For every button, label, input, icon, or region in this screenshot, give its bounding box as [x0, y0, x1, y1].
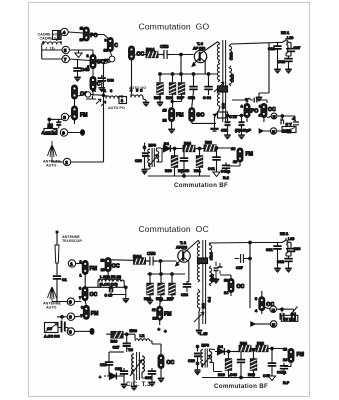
svg-text:C45μ: C45μ — [277, 371, 287, 375]
svg-text:11: 11 — [152, 308, 156, 312]
svg-text:PO: PO — [207, 297, 211, 302]
svg-text:AUTO PO: AUTO PO — [108, 106, 125, 110]
svg-text:C52: C52 — [188, 96, 195, 100]
svg-text:OC: OC — [167, 360, 175, 366]
svg-text:10: 10 — [101, 268, 105, 272]
svg-text:T. 3: T. 3 — [197, 42, 203, 46]
svg-text:L 25: L 25 — [200, 332, 207, 336]
svg-text:C V: C V — [286, 123, 293, 127]
svg-text:OSC: OSC — [229, 52, 233, 60]
svg-text:+: + — [99, 376, 101, 380]
svg-text:R(D4S: R(D4S — [178, 169, 190, 173]
svg-text:6: 6 — [79, 287, 81, 291]
svg-text:L10: L10 — [288, 237, 294, 241]
svg-text:9: 9 — [69, 330, 72, 335]
svg-text:2: 2 — [65, 160, 68, 165]
svg-text:3: 3 — [121, 99, 123, 103]
svg-text:R24: R24 — [240, 342, 248, 346]
svg-text:5: 5 — [64, 48, 67, 53]
svg-text:AF 126: AF 126 — [193, 47, 205, 51]
svg-text:AUTO: AUTO — [46, 164, 57, 168]
svg-text:C58: C58 — [147, 251, 156, 256]
svg-text:TELESCOP.: TELESCOP. — [62, 239, 82, 243]
svg-text:FM: FM — [91, 311, 99, 317]
svg-text:15: 15 — [163, 109, 167, 113]
svg-text:H: H — [273, 115, 276, 119]
svg-text:R04: R04 — [133, 254, 142, 259]
svg-text:C/C. T.3: C/C. T.3 — [126, 381, 151, 388]
svg-text:FM: FM — [80, 113, 88, 119]
svg-text:8: 8 — [63, 115, 66, 120]
svg-text:C10: C10 — [135, 159, 142, 163]
svg-text:R19: R19 — [165, 169, 172, 173]
svg-text:9: 9 — [105, 39, 107, 43]
svg-text:R24: R24 — [184, 142, 192, 146]
svg-text:L 3(a) (b) (c): L 3(a) (b) (c) — [100, 275, 122, 279]
svg-text:10: 10 — [224, 279, 228, 283]
svg-text:C41: C41 — [208, 167, 215, 171]
svg-text:Commutation BF: Commutation BF — [214, 383, 268, 390]
svg-text:AF106: AF106 — [176, 246, 187, 250]
svg-text:C58: C58 — [160, 44, 169, 49]
svg-text:M: M — [272, 308, 275, 312]
svg-text:13: 13 — [283, 348, 287, 352]
svg-text:C56: C56 — [210, 278, 217, 282]
svg-text:MF3: MF3 — [202, 344, 209, 348]
svg-text:M: M — [272, 323, 275, 327]
svg-text:C33: C33 — [294, 247, 301, 251]
svg-text:FM: FM — [176, 113, 184, 119]
svg-text:C48: C48 — [81, 67, 90, 72]
svg-text:2: 2 — [80, 260, 82, 264]
svg-text:3: 3 — [259, 105, 261, 109]
svg-text:OC: OC — [90, 292, 98, 298]
svg-text:+: + — [164, 329, 167, 334]
svg-text:Commutation BF: Commutation BF — [174, 182, 228, 189]
svg-text:(C)140μF: (C)140μF — [235, 129, 252, 133]
svg-text:16: 16 — [233, 160, 237, 164]
svg-text:7: 7 — [79, 296, 81, 300]
svg-text:12: 12 — [153, 317, 157, 321]
svg-text:C 34: C 34 — [203, 96, 212, 100]
svg-text:12: 12 — [163, 119, 167, 123]
svg-text:GO: GO — [196, 113, 204, 119]
svg-text:C27: C27 — [113, 346, 120, 350]
svg-text:R36: R36 — [166, 96, 173, 100]
svg-text:NE 1: NE 1 — [281, 31, 289, 35]
svg-text:B.P: B.P — [283, 381, 290, 385]
svg-text:4: 4 — [63, 30, 66, 35]
svg-text:R16: R16 — [111, 340, 118, 344]
svg-text:C18: C18 — [188, 359, 195, 363]
svg-text:LR: LR — [140, 334, 145, 338]
svg-text:R26: R26 — [257, 342, 264, 346]
svg-text:OC: OC — [201, 303, 205, 309]
svg-text:Commutation GO: Commutation GO — [139, 22, 210, 32]
svg-text:1: 1 — [80, 274, 82, 278]
svg-text:C32: C32 — [278, 60, 285, 64]
svg-text:MF3: MF3 — [149, 144, 156, 148]
svg-text:T. 2: T. 2 — [180, 241, 186, 245]
svg-text:C: C — [97, 82, 101, 88]
svg-text:A.CC GO: A.CC GO — [42, 131, 58, 135]
svg-text:FM: FM — [246, 152, 254, 158]
svg-text:C37: C37 — [236, 266, 243, 270]
svg-text:10: 10 — [80, 38, 84, 42]
svg-text:C31: C31 — [266, 248, 273, 252]
svg-text:2: 2 — [87, 54, 89, 58]
svg-text:D.2: D.2 — [223, 176, 229, 180]
svg-text:C32: C32 — [277, 260, 284, 264]
svg-text:PO: PO — [90, 33, 98, 39]
svg-text:OSC: OSC — [209, 252, 213, 260]
svg-text:Commutation OC: Commutation OC — [139, 224, 209, 234]
svg-text:(A.CC OC): (A.CC OC) — [100, 282, 119, 286]
svg-text:C1: C1 — [62, 278, 67, 282]
svg-text:NE 1: NE 1 — [280, 232, 288, 236]
svg-text:5: 5 — [255, 297, 257, 301]
svg-text:9: 9 — [62, 131, 65, 136]
svg-text:CADRE GO: CADRE GO — [40, 37, 60, 41]
svg-text:7: 7 — [64, 57, 67, 62]
svg-text:.C48: .C48 — [229, 373, 237, 377]
svg-text:12: 12 — [231, 147, 235, 151]
svg-text:OC: OC — [268, 107, 276, 113]
svg-text:L10: L10 — [287, 36, 293, 40]
svg-text:FM: FM — [297, 352, 305, 358]
svg-text:R26: R26 — [205, 141, 212, 145]
svg-text:6: 6 — [81, 306, 83, 310]
svg-text:HR3: HR3 — [130, 329, 137, 333]
svg-text:CV: CV — [47, 327, 53, 331]
svg-text:R3P: R3P — [177, 96, 185, 100]
svg-text:1 3: 1 3 — [104, 89, 112, 93]
svg-text:R23: R23 — [218, 373, 225, 377]
svg-text:C49: C49 — [107, 79, 114, 83]
svg-text:R34: R34 — [146, 47, 155, 52]
svg-text:A.CC OC: A.CC OC — [44, 335, 60, 339]
svg-text:C27: C27 — [294, 46, 301, 50]
svg-text:C28: C28 — [115, 367, 122, 371]
svg-text:C: C — [114, 43, 118, 49]
svg-text:3: 3 — [69, 300, 72, 305]
svg-text:C26: C26 — [100, 363, 107, 367]
svg-text:OC: OC — [237, 284, 245, 290]
svg-text:C56: C56 — [221, 129, 228, 133]
svg-text:FM: FM — [90, 266, 98, 272]
svg-text:PO: PO — [251, 109, 258, 115]
svg-text:11: 11 — [80, 27, 84, 31]
svg-text:1: 1 — [70, 262, 73, 267]
svg-text:12: 12 — [104, 49, 108, 53]
svg-text:CV (2a): CV (2a) — [283, 317, 296, 321]
svg-text:C40μ: C40μ — [221, 170, 231, 174]
svg-text:M: M — [272, 130, 275, 134]
svg-text:OSC: OSC — [230, 74, 234, 82]
svg-text:24(a): 24(a) — [283, 129, 292, 133]
svg-text:FM: FM — [164, 311, 172, 317]
svg-text:C24: C24 — [181, 293, 189, 297]
svg-text:GO: GO — [221, 103, 225, 109]
svg-text:OC: OC — [112, 263, 120, 269]
svg-text:C30: C30 — [145, 376, 152, 380]
svg-text:T.3: T.3 — [128, 348, 133, 352]
svg-text:CV: CV — [48, 125, 54, 129]
svg-text:12: 12 — [101, 259, 105, 263]
svg-text:+: + — [158, 327, 161, 332]
svg-text:L 1b: L 1b — [46, 46, 56, 51]
svg-text:C31: C31 — [268, 47, 275, 51]
svg-text:AUTO: AUTO — [46, 306, 57, 310]
svg-text:8: 8 — [69, 315, 72, 320]
